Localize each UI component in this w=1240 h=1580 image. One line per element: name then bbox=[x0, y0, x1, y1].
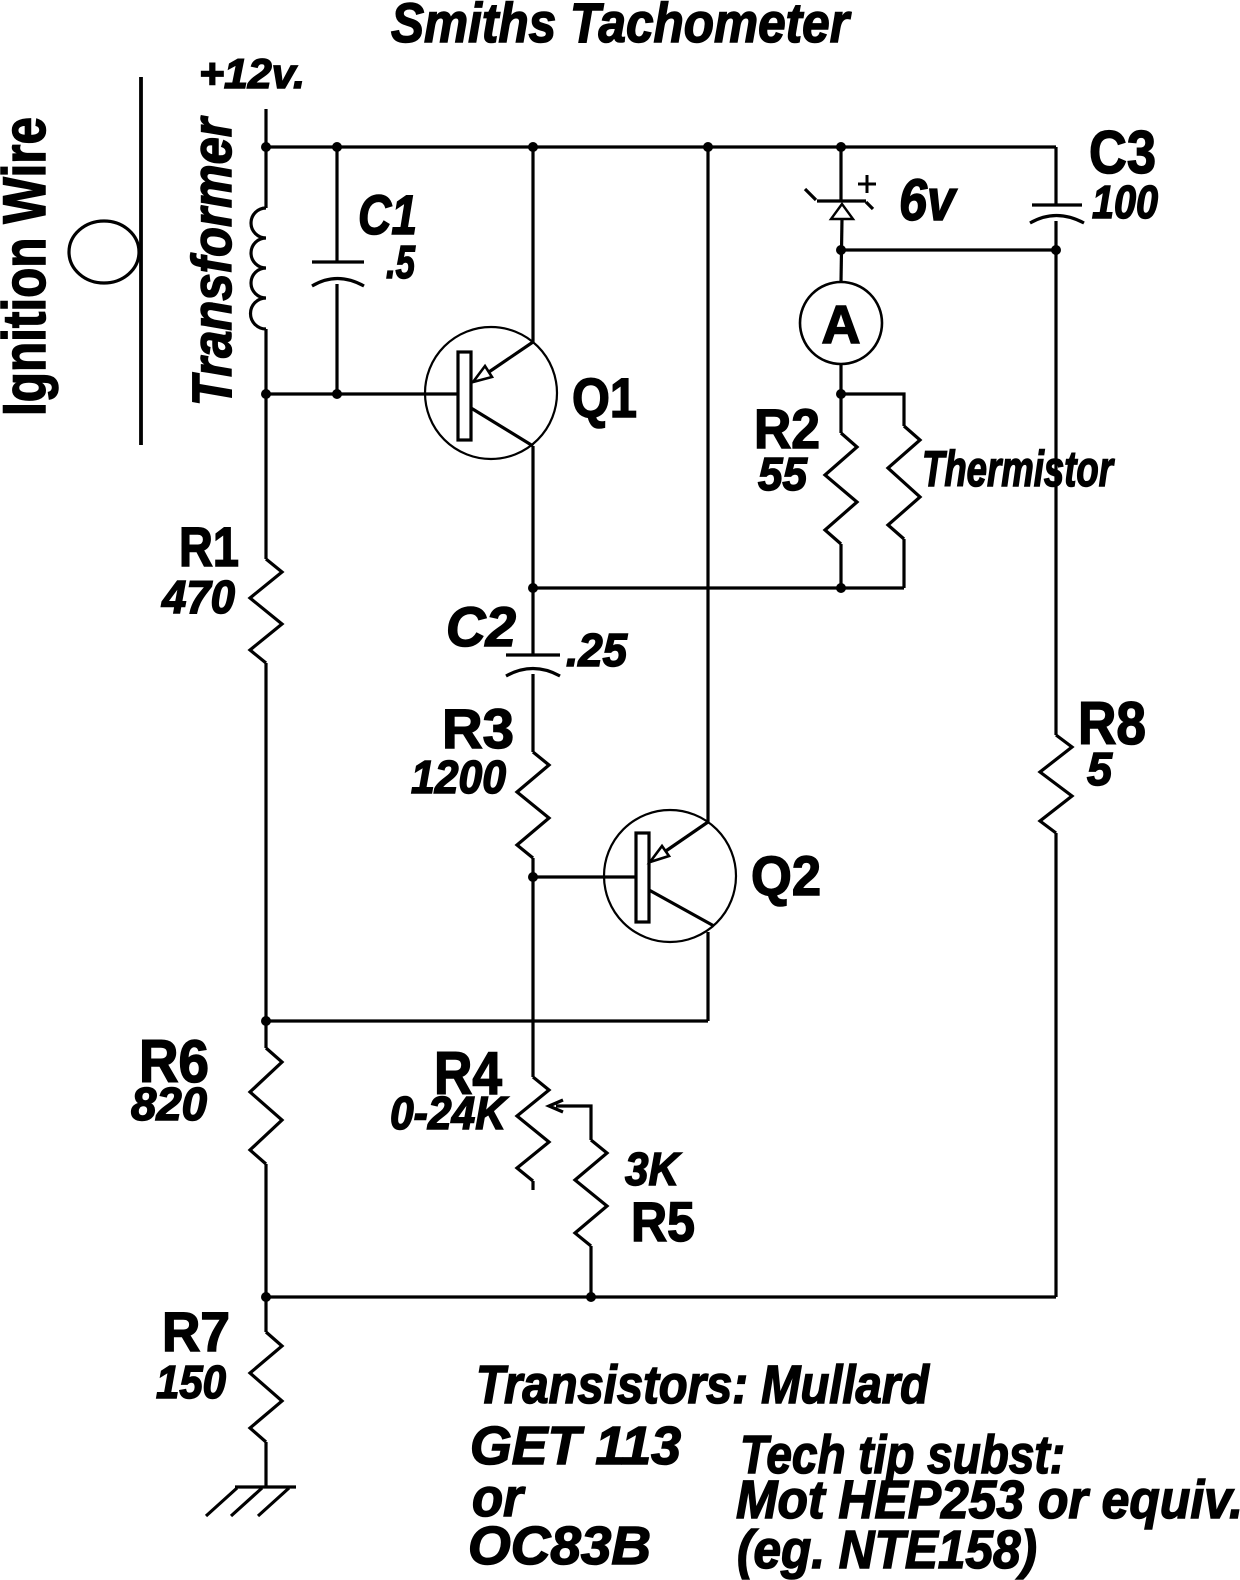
svg-text:3K: 3K bbox=[625, 1143, 682, 1195]
wire top rail bbox=[266, 145, 1056, 148]
wire Q2 collector drop bbox=[706, 932, 709, 1021]
zener diode D1 bbox=[805, 189, 873, 219]
node rail-Q2 bbox=[703, 142, 713, 152]
ground bbox=[206, 1487, 296, 1516]
capacitor C2 bbox=[506, 655, 560, 676]
wire R7 to ground bbox=[264, 1442, 267, 1487]
node Q2 base junction bbox=[528, 872, 538, 882]
svg-text:R7: R7 bbox=[162, 1300, 230, 1363]
ammeter A bbox=[800, 282, 882, 364]
svg-text:.25: .25 bbox=[566, 624, 628, 676]
wire wiper to R5 bbox=[556, 1106, 591, 1140]
svg-text:5: 5 bbox=[1087, 743, 1113, 795]
svg-text:Q1: Q1 bbox=[572, 366, 637, 429]
svg-text:0-24K: 0-24K bbox=[390, 1087, 509, 1139]
svg-text:Q2: Q2 bbox=[751, 844, 821, 907]
resistor R7 bbox=[250, 1332, 282, 1442]
capacitor C3 bbox=[1030, 205, 1084, 223]
node R2 bottom junction bbox=[836, 583, 846, 593]
wire +12v feed bbox=[264, 109, 267, 208]
resistor R3 bbox=[517, 752, 549, 858]
wire C2 to R3 bbox=[531, 674, 534, 752]
svg-text:Transistors: Mullard: Transistors: Mullard bbox=[476, 1355, 930, 1415]
wire D1-C3 horizontal bbox=[841, 248, 1056, 251]
wire Q1 collector bbox=[531, 446, 534, 655]
wire bottom rail bbox=[266, 1295, 1056, 1298]
node D1-C3 junction bbox=[836, 245, 846, 255]
svg-text:Smiths Tachometer: Smiths Tachometer bbox=[391, 0, 852, 54]
node rail-Q1 emitter bbox=[528, 142, 538, 152]
ignition wire bbox=[139, 77, 143, 445]
svg-text:150: 150 bbox=[156, 1356, 226, 1408]
node lower-left bbox=[261, 1016, 271, 1026]
wire R2-thermistor bridge bbox=[841, 394, 904, 426]
svg-text:6v: 6v bbox=[899, 168, 957, 233]
wire R5 bottom lead bbox=[589, 1246, 592, 1297]
node rail-left bbox=[261, 142, 271, 152]
node C3 bottom junction bbox=[1051, 245, 1061, 255]
svg-text:(eg. NTE158): (eg. NTE158) bbox=[737, 1520, 1037, 1580]
wire Q1 emitter bbox=[531, 147, 534, 342]
svg-text:1200: 1200 bbox=[411, 751, 506, 803]
wire Q2 base bbox=[533, 875, 636, 878]
potentiometer R4 bbox=[531, 1021, 534, 1077]
svg-text:470: 470 bbox=[161, 571, 235, 623]
svg-text:R5: R5 bbox=[631, 1190, 695, 1253]
resistor R2 bbox=[825, 433, 857, 544]
wire C1 top lead bbox=[335, 147, 338, 262]
wire C3 top lead bbox=[1054, 147, 1057, 205]
svg-text:A: A bbox=[822, 295, 861, 355]
node base-C1 bbox=[332, 389, 342, 399]
wire R1 to R6 bbox=[264, 663, 267, 1048]
resistor R5 bbox=[575, 1140, 607, 1246]
svg-text:.5: .5 bbox=[386, 236, 416, 288]
node R2 top junction bbox=[836, 389, 846, 399]
resistor R6 bbox=[250, 1048, 282, 1164]
node bottom-R5 bbox=[586, 1292, 596, 1302]
wire D1 top lead bbox=[839, 147, 842, 201]
transformer T1 winding bbox=[250, 208, 266, 329]
svg-text:820: 820 bbox=[131, 1078, 207, 1130]
wire R2 bottom lead bbox=[839, 544, 842, 588]
wire transformer to base junction bbox=[264, 329, 267, 559]
transistor Q1 bbox=[425, 327, 557, 459]
transistor Q2 bbox=[604, 810, 736, 942]
node rail-D1 bbox=[836, 142, 846, 152]
wire thermistor bottom lead bbox=[902, 539, 905, 588]
svg-text:C2: C2 bbox=[446, 595, 516, 658]
resistor R8 bbox=[1040, 735, 1072, 833]
wire Q2 emitter riser bbox=[706, 147, 709, 822]
wire Q1 base bbox=[266, 392, 458, 395]
thermistor RT bbox=[888, 426, 920, 539]
svg-text:Thermistor: Thermistor bbox=[922, 441, 1115, 497]
svg-text:+12v.: +12v. bbox=[199, 50, 305, 97]
wire ammeter to R2 bbox=[839, 364, 842, 433]
resistor R1 bbox=[250, 559, 282, 663]
node base-left bbox=[261, 389, 271, 399]
capacitor C1 bbox=[312, 262, 364, 286]
svg-text:Ignition Wire: Ignition Wire bbox=[0, 117, 58, 416]
pickup loop bbox=[69, 221, 139, 283]
wire C3 to R8 bbox=[1054, 221, 1057, 735]
svg-text:55: 55 bbox=[758, 448, 808, 500]
svg-text:100: 100 bbox=[1092, 176, 1158, 228]
node rail-C1 bbox=[332, 142, 342, 152]
R4 wiper arrow bbox=[549, 1100, 563, 1112]
wire D1 to ammeter bbox=[841, 219, 842, 282]
wire C1 bottom lead bbox=[335, 284, 338, 394]
wire lower horizontal bbox=[266, 1019, 708, 1022]
svg-text:Transformer: Transformer bbox=[180, 115, 243, 406]
wire R6 to R7 bbox=[264, 1164, 267, 1332]
node collector-C2 junction bbox=[528, 583, 538, 593]
polarity plus sign bbox=[858, 175, 876, 193]
svg-text:OC83B: OC83B bbox=[468, 1516, 651, 1576]
wire R3 to lower rail bbox=[531, 858, 534, 1021]
svg-text:GET 113: GET 113 bbox=[470, 1416, 681, 1476]
wire right rail bottom bbox=[1054, 833, 1057, 1297]
svg-text:R1: R1 bbox=[179, 515, 239, 578]
wire mid horizontal bbox=[533, 586, 904, 589]
node bottom-left bbox=[261, 1292, 271, 1302]
